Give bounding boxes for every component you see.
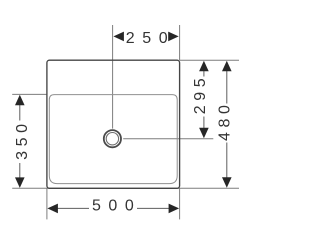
dim 480: arrow down <box>222 177 232 188</box>
washbasin outer outline <box>47 60 180 188</box>
extension line: basin left edge downward (500) <box>46 188 48 219</box>
svg-text:295: 295 <box>192 74 209 115</box>
svg-text:250: 250 <box>126 30 176 47</box>
drain outer circle <box>104 130 121 147</box>
extension line: bottom edge full width (350/480/500) <box>12 187 239 189</box>
dim 250: arrow left <box>113 32 124 42</box>
dim 295: line lower segment <box>203 117 205 129</box>
extension line: 350 top (bowl top leftward) <box>12 93 47 95</box>
washbasin inner bowl <box>49 95 177 184</box>
dim 350: line upper segment <box>19 105 21 121</box>
extension line: 250 right / basin right edge upward <box>179 25 181 60</box>
dim 295: line upper segment <box>203 71 205 77</box>
extension line: top edge rightward (295/480) <box>180 59 239 61</box>
dim 295: arrow up <box>199 61 209 72</box>
dim 480: arrow up <box>222 61 232 72</box>
svg-text:500: 500 <box>92 198 142 215</box>
dim 480: line lower segment <box>226 143 228 178</box>
dim 500: arrow right <box>169 204 180 214</box>
dim 500: line left segment <box>57 207 89 209</box>
svg-text:480: 480 <box>217 101 234 142</box>
extension line: 250 left (to drain) <box>112 25 114 129</box>
svg-text:350: 350 <box>14 119 31 160</box>
dim 350: arrow up <box>15 95 25 106</box>
dim 350: line lower segment <box>19 163 21 178</box>
dim 250: arrow right <box>168 32 179 42</box>
dim 295: arrow down <box>199 128 209 139</box>
dim 480: line upper segment <box>226 71 228 104</box>
dim 500: arrow left <box>47 204 58 214</box>
dim 350: arrow down <box>15 177 25 188</box>
extension line: drain horizontal (295) <box>123 138 213 140</box>
extension line: basin right edge downward (500) <box>179 188 181 219</box>
dim 500: line right segment <box>137 207 169 209</box>
drain inner circle <box>106 133 118 145</box>
